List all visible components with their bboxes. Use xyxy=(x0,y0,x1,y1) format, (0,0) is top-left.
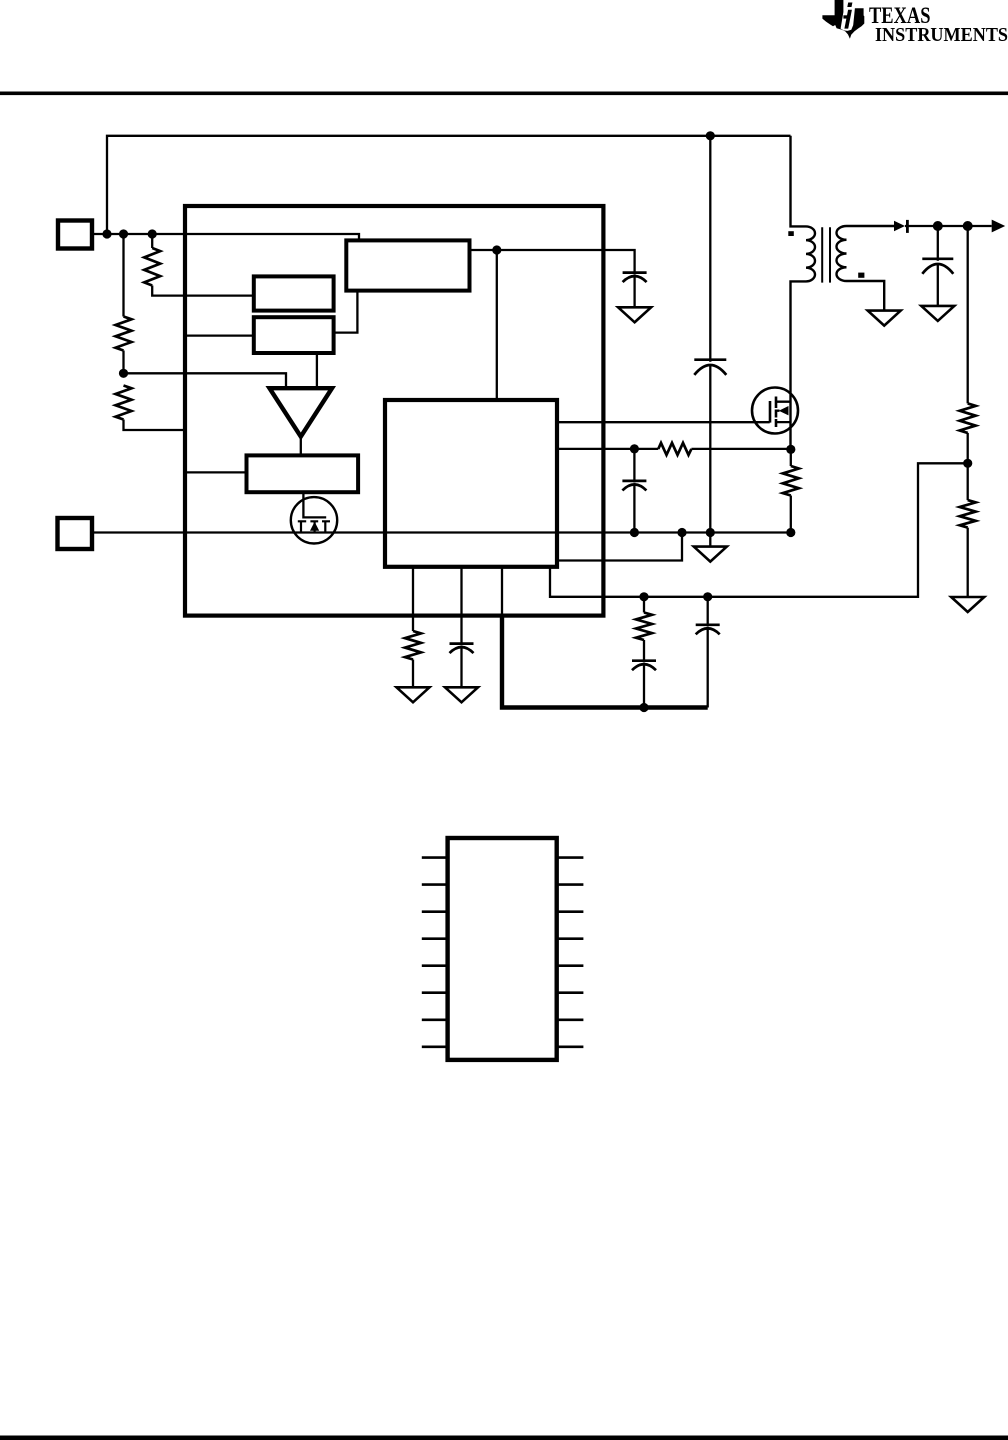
ground under R6 xyxy=(397,687,430,702)
node feedback junction xyxy=(963,459,972,468)
node CS rail junction 4 xyxy=(786,528,795,537)
wire R3 bottom to IC edge xyxy=(124,420,186,431)
T1 secondary phase dot xyxy=(858,273,864,278)
node RC filter junction xyxy=(630,444,639,453)
wire block C to block A bottom xyxy=(334,291,358,333)
wire C3 to bottom rail xyxy=(643,664,645,708)
wire R2 to node FB xyxy=(122,351,124,374)
wire block E pin RT xyxy=(412,567,414,631)
capacitor C6 xyxy=(694,360,726,375)
resistor R5 xyxy=(636,613,652,641)
ground under CS rail xyxy=(694,547,727,562)
wire node FB to op-amp input xyxy=(124,373,287,387)
wire CS rail (long horizontal) xyxy=(92,531,791,533)
node output junction 2 xyxy=(963,221,973,231)
diode D1 xyxy=(894,221,905,232)
pin 6 xyxy=(422,991,448,994)
pin 2 xyxy=(422,883,448,886)
ground under T1 secondary xyxy=(868,311,901,326)
IC package outline (16-pin DIP) xyxy=(448,838,557,1060)
wire C4 to bottom rail xyxy=(707,628,709,708)
wire block E to CS rail xyxy=(557,533,682,561)
node input junction 2 xyxy=(119,229,128,238)
node VREF junction xyxy=(492,245,501,254)
wire block D to Q1 gate xyxy=(303,492,326,517)
Q1 channel bar xyxy=(298,520,330,522)
diode D1 cathode bar xyxy=(906,220,909,233)
capacitor C3 xyxy=(632,661,656,671)
node CS rail junction 1 xyxy=(630,528,639,537)
ground under C5 xyxy=(445,687,478,702)
pin 3 xyxy=(422,910,448,913)
capacitor C5 xyxy=(450,644,474,654)
wire VIN top rail xyxy=(107,136,791,234)
block A (reference/regulator) xyxy=(346,240,469,290)
wire block E to RC filter xyxy=(557,448,658,450)
resistor R8 (divider top) xyxy=(960,403,976,433)
wire resistor R1 top lead xyxy=(151,234,153,248)
resistor R9 (divider bottom) xyxy=(960,500,976,527)
pin 13 xyxy=(557,937,584,940)
bottom rule xyxy=(0,1436,1008,1440)
wire block A to VREF cap xyxy=(470,250,635,274)
ground under R9 xyxy=(951,597,984,612)
Q1 body arrow xyxy=(310,522,319,531)
pin 8 xyxy=(422,1046,448,1049)
wire VIN to bulk cap C6 xyxy=(709,136,711,362)
wire block E gate drive out xyxy=(557,421,770,423)
transformer T1 primary winding xyxy=(791,136,816,450)
wire C4 top lead xyxy=(707,597,709,627)
node input junction 3 xyxy=(148,229,157,238)
node CS rail junction 3 xyxy=(706,528,715,537)
pin 10 xyxy=(557,1018,584,1021)
Q2 body arrow xyxy=(779,406,789,415)
ground under C1 xyxy=(618,307,651,322)
wire Q2 source lead xyxy=(790,449,792,466)
node VIN bulk junction xyxy=(706,131,715,140)
wire C5 to ground xyxy=(460,647,462,688)
wire block E pin to feedback rail xyxy=(550,463,968,597)
pin 14 xyxy=(557,910,584,913)
pin 5 xyxy=(422,964,448,967)
transistor Q1 (internal MOSFET) xyxy=(291,497,337,543)
block C (comparator lower) xyxy=(254,317,334,353)
capacitor C4 xyxy=(696,625,720,635)
node FB divider junction xyxy=(119,369,128,378)
wire C7 to ground xyxy=(937,265,939,306)
wire IC edge to block D xyxy=(185,471,247,473)
node snubber junction 1 xyxy=(639,592,648,601)
terminal J2 xyxy=(58,518,93,549)
top rule xyxy=(0,92,1008,96)
capacitor C1 xyxy=(623,273,647,283)
transistor Q2 (external MOSFET) xyxy=(752,388,798,434)
wire C1 to ground xyxy=(633,276,635,308)
resistor R7 (current sense) xyxy=(783,466,799,496)
wire R9 to ground xyxy=(967,528,969,597)
wire R1 to block B xyxy=(152,286,254,296)
pin 16 xyxy=(557,856,584,859)
block B (comparator upper) xyxy=(254,276,334,310)
wire filter node down to C2 xyxy=(633,449,635,483)
wire R6 to ground xyxy=(412,660,414,688)
capacitor C2 xyxy=(622,481,646,491)
input terminal J1 xyxy=(58,221,92,249)
wire block E pin CT xyxy=(460,567,462,645)
wire R5 to C3 xyxy=(643,640,645,662)
pin 9 xyxy=(557,1046,584,1049)
wire input node to block A xyxy=(92,234,359,241)
node snubber junction 2 xyxy=(703,592,712,601)
wire output to divider xyxy=(967,226,969,403)
T1 primary phase dot xyxy=(788,231,794,236)
node CS rail junction 2 xyxy=(677,528,686,537)
node output junction 1 xyxy=(933,221,943,231)
wire block C to op-amp xyxy=(316,353,318,387)
wire C6 to CS rail xyxy=(709,366,711,533)
node bottom rail junction xyxy=(639,703,648,712)
wire C2 to CS rail xyxy=(633,484,635,533)
Q1 source drain taps xyxy=(301,521,325,532)
wire block A node to block E xyxy=(496,250,498,400)
transformer T1 secondary winding xyxy=(837,226,895,311)
wire resistor R2 top lead xyxy=(122,234,124,317)
output arrow xyxy=(992,220,1006,233)
resistor R2 xyxy=(116,317,132,351)
resistor R1 xyxy=(144,248,160,286)
wire block E pin GND stub xyxy=(501,567,503,616)
wire ground stub under CS rail xyxy=(709,533,711,547)
IC U1 boundary outline xyxy=(185,206,603,616)
pin 7 xyxy=(422,1018,448,1021)
resistor R6 xyxy=(405,631,421,660)
ground under C7 xyxy=(921,306,954,321)
pin 15 xyxy=(557,883,584,886)
Q2 channel bar xyxy=(775,397,778,428)
wire R7 to CS rail xyxy=(790,496,792,533)
node Q2 source junction xyxy=(786,445,795,454)
pin 11 xyxy=(557,991,584,994)
wire IC edge to block C xyxy=(185,334,254,336)
wire chain R5 C3 top lead xyxy=(643,597,645,613)
wire R4 to Q2 source node xyxy=(691,448,790,450)
op-amp A1 (triangle) xyxy=(270,388,333,436)
TI logo bug (Texas outline) xyxy=(822,0,864,39)
Q2 gate bar xyxy=(769,401,772,423)
resistor R4 (horizontal) xyxy=(658,443,691,455)
wire R8 to feedback node xyxy=(967,433,969,500)
pin 4 xyxy=(422,937,448,940)
wire output cap lead xyxy=(937,226,939,261)
block E (PWM controller core) xyxy=(385,400,557,567)
resistor R3 xyxy=(116,386,132,420)
block D (driver) xyxy=(247,455,359,492)
svg-text:INSTRUMENTS: INSTRUMENTS xyxy=(875,24,1008,46)
node VIN junction xyxy=(102,229,111,238)
transformer T1 core xyxy=(822,227,830,282)
wire op-amp to block D xyxy=(300,437,302,455)
wire D1 to output xyxy=(905,225,992,227)
Q2 drain source taps xyxy=(776,402,791,422)
wire bottom return rail xyxy=(502,616,708,708)
pin 1 xyxy=(422,856,448,859)
pin 12 xyxy=(557,964,584,967)
capacitor C7 (output) xyxy=(922,259,953,274)
